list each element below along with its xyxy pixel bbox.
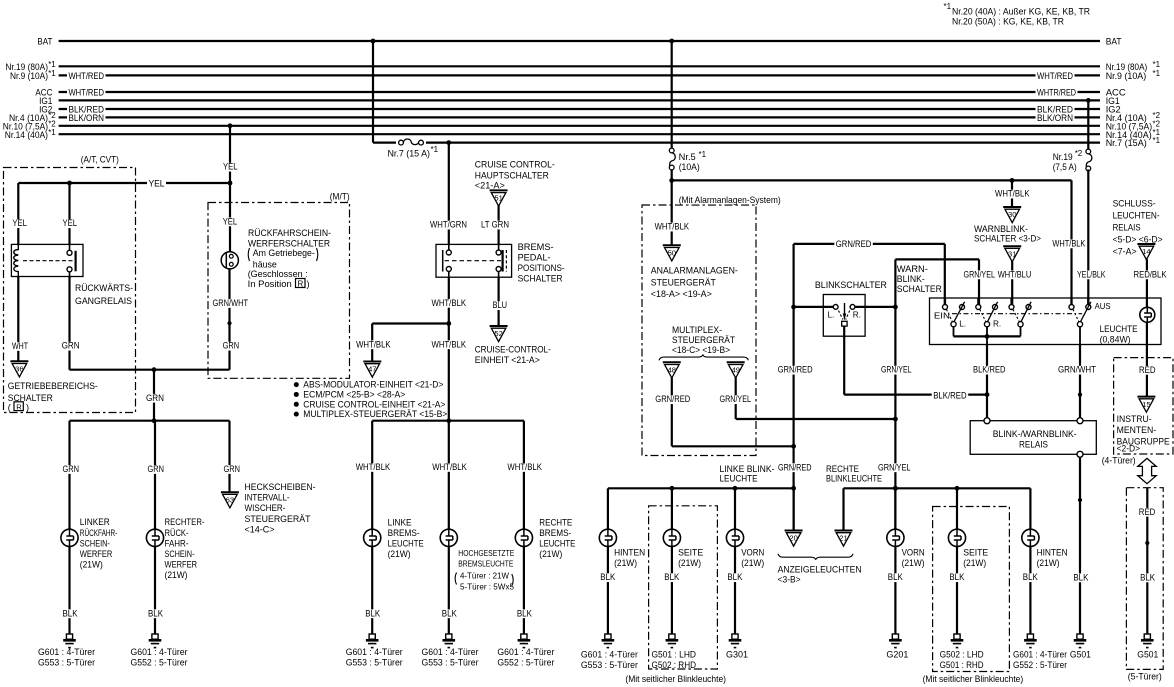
wire to left VORN blink lamp (734, 488, 736, 529)
svg-text:BLK: BLK (888, 572, 904, 582)
svg-text:*1: *1 (1153, 60, 1161, 69)
svg-text:BLK: BLK (664, 572, 680, 582)
wire RED/BLK to instrument cluster (1138, 322, 1158, 396)
ground G301 left VORN (726, 634, 748, 659)
svg-text:STEUERGERÄT: STEUERGERÄT (245, 514, 311, 524)
svg-text:WHT/BLK: WHT/BLK (356, 462, 391, 472)
wire LT GRN to brake pedal switch (480, 205, 511, 244)
wire GRN/RED turn signal feed (776, 239, 945, 530)
svg-text:(Geschlossen :: (Geschlossen : (248, 269, 308, 279)
label unit list ABS ECM CRUISE MULTIPLEX (294, 380, 448, 420)
lamp left SEITE 21W (663, 529, 703, 568)
svg-text:GRN: GRN (146, 393, 164, 403)
svg-text:*1: *1 (48, 128, 56, 137)
wire YEL/BLK from fuse Nr.19 (1076, 170, 1108, 305)
svg-text:CRUISE CONTROL-: CRUISE CONTROL- (475, 160, 555, 170)
svg-text:BLK/RED: BLK/RED (973, 365, 1006, 375)
svg-text:(21W): (21W) (388, 549, 411, 559)
wire BLK left backup lamp (61, 546, 79, 634)
svg-text:Nr.9 (10A): Nr.9 (10A) (1106, 71, 1147, 82)
lamp right VORN 21W (887, 529, 925, 568)
ground G601/G552 right backup lamp (131, 634, 188, 668)
svg-text:Nr.7 (15A): Nr.7 (15A) (1106, 138, 1147, 149)
svg-text:GRN: GRN (223, 341, 240, 351)
svg-text:Nr.19: Nr.19 (1053, 152, 1073, 162)
wire RED/BLK to leuchte (1132, 259, 1168, 307)
svg-text:G601 : 4-Türer: G601 : 4-Türer (581, 649, 638, 659)
svg-text:In Position: In Position (248, 279, 292, 289)
wire BLK/RED from blinkschalter common (844, 326, 989, 400)
svg-text:WARN-: WARN- (897, 264, 928, 274)
svg-text:49: 49 (731, 366, 739, 375)
bus wire BAT (37, 37, 1121, 48)
wire YEL tap from Nr.10 bus (222, 123, 240, 183)
svg-text:MULTIPLEX-STEUERGERÄT <15-B>: MULTIPLEX-STEUERGERÄT <15-B> (303, 409, 447, 419)
wire BLK left VORN (726, 546, 744, 634)
svg-text:GANGRELAIS: GANGRELAIS (75, 296, 132, 306)
bus wire IG2 (39, 104, 1121, 115)
svg-text:G601 : 4-Türer: G601 : 4-Türer (422, 647, 479, 657)
svg-text:SCHEIN-: SCHEIN- (165, 549, 195, 559)
svg-text:<18-C> <19-B>: <18-C> <19-B> (672, 345, 730, 355)
svg-text:G501 : LHD: G501 : LHD (652, 649, 697, 659)
svg-text:47: 47 (368, 365, 376, 374)
svg-text:L.: L. (959, 319, 966, 328)
svg-text:WARNBLINK-: WARNBLINK- (974, 224, 1028, 234)
svg-text:RELAIS: RELAIS (1019, 440, 1048, 450)
label MULTIPLEX-STEUERGERAET <18-C> <19-B> (659, 325, 748, 360)
svg-text:(A/T, CVT): (A/T, CVT) (81, 154, 119, 164)
svg-text:WHT/RED: WHT/RED (69, 87, 105, 97)
label INSTRUMENTEN-BAUGRUPPE <2-D> (1102, 414, 1170, 466)
svg-text:5-Türer : 5Wx5: 5-Türer : 5Wx5 (460, 581, 514, 591)
svg-text:SEITE: SEITE (963, 547, 988, 557)
lamp right HINTEN 21W (1022, 529, 1068, 568)
connector triangle 15 (1137, 397, 1155, 413)
svg-text:): ) (307, 279, 310, 289)
svg-text:RECHTE: RECHTE (539, 517, 572, 527)
svg-text:BLK: BLK (365, 608, 381, 618)
svg-text:FAHR-: FAHR- (165, 538, 189, 548)
svg-text:Nr.20 (50A) : KG, KE, KB, TR: Nr.20 (50A) : KG, KE, KB, TR (952, 17, 1064, 28)
svg-text:*1: *1 (48, 69, 56, 78)
svg-text:RED: RED (1139, 365, 1156, 375)
ground G501 instrument 5-Tuerer (1137, 634, 1158, 659)
svg-text:G552 : 5-Türer: G552 : 5-Türer (1013, 660, 1067, 670)
svg-text:R: R (298, 279, 304, 288)
svg-text:15: 15 (1142, 400, 1150, 409)
wire WHT/BLK branch to ABS units (355, 324, 449, 362)
svg-text:LINKE: LINKE (388, 517, 412, 527)
svg-text:RED/BLK: RED/BLK (1134, 269, 1168, 279)
svg-text:LEUCHTE: LEUCHTE (388, 539, 424, 549)
svg-text:HINTEN: HINTEN (1037, 547, 1068, 557)
svg-text:BLK/ORN: BLK/ORN (69, 113, 105, 123)
wire to left HINTEN blink lamp (607, 488, 609, 529)
wire YEL into reverse light switch (221, 183, 239, 252)
svg-text:BLK: BLK (442, 608, 458, 618)
ground G501 left SEITE (652, 634, 697, 670)
svg-text:SCHALTER: SCHALTER (897, 284, 942, 294)
label HECKSCHEIBEN-INTERVALL-WISCHER-STEUERGERAET <14-C> (245, 482, 316, 534)
label GETRIEBEBEREICHS-SCHALTER [R] (8, 381, 98, 413)
wire GRN to right backup lamp (146, 421, 166, 530)
svg-text:<2-D>: <2-D> (1117, 444, 1141, 454)
wire RED/BLK instrument 5-Tuerer (1137, 488, 1157, 634)
svg-text:WISCHER-: WISCHER- (245, 503, 286, 513)
ground G601 RECHTE BREMSLEUCHTE (497, 634, 554, 668)
svg-text:20: 20 (789, 534, 797, 543)
svg-text:G601 : 4-Türer: G601 : 4-Türer (38, 647, 95, 657)
svg-text:HOCHGESETZTE: HOCHGESETZTE (458, 548, 514, 558)
svg-text:LEUCHTE: LEUCHTE (1100, 324, 1138, 334)
svg-text:(10A): (10A) (679, 162, 700, 172)
svg-text:(0,84W): (0,84W) (1100, 334, 1131, 344)
dashed box (A/T, CVT) (4, 150, 136, 413)
connector triangle 31 (1003, 246, 1021, 262)
svg-text:51: 51 (494, 194, 502, 203)
svg-text:*1: *1 (1153, 136, 1161, 145)
svg-text:SCHALTER: SCHALTER (518, 274, 563, 284)
svg-text:BLINK-: BLINK- (897, 274, 925, 284)
svg-text:L.: L. (828, 311, 835, 320)
double arrow link 4-Tuerer/5-Tuerer (1138, 458, 1156, 483)
wire WHT/BLK to warnblink switch AUS (1051, 180, 1087, 304)
svg-text:YEL/BLK: YEL/BLK (1077, 269, 1106, 279)
ground G201 right VORN (886, 634, 908, 659)
svg-text:INTERVALL-: INTERVALL- (245, 493, 290, 503)
wire WHT/BLK to HOCHGESETZTE BREMSLEUCHTE (431, 421, 469, 530)
fuse Nr.19 (7,5A) (1053, 149, 1092, 172)
svg-text:BLU: BLU (493, 300, 508, 310)
svg-text:Nr.14 (40A): Nr.14 (40A) (5, 130, 48, 141)
label CRUISE-CONTROL-EINHEIT <21-A> (475, 344, 551, 365)
label CRUISE CONTROL-HAUPTSCHALTER <21-A> (475, 160, 555, 191)
switch BREMSPEDAL-POSITIONS-SCHALTER (436, 242, 565, 284)
svg-text:ANALARMANLAGEN-: ANALARMANLAGEN- (651, 266, 738, 276)
wire right turn lamp bus (826, 464, 1030, 491)
svg-text:VORN: VORN (741, 547, 764, 557)
svg-text:GRN/RED: GRN/RED (778, 462, 812, 472)
svg-text:*1: *1 (431, 145, 439, 154)
connector triangle 20 (785, 488, 803, 546)
svg-text:Nr.7 (15 A): Nr.7 (15 A) (388, 148, 431, 158)
svg-text:BLK/RED: BLK/RED (933, 390, 967, 400)
svg-text:BREMS-: BREMS- (539, 528, 571, 538)
wire YEL to relay contact (61, 183, 79, 244)
svg-text:BLK: BLK (63, 608, 79, 618)
svg-text:BLK: BLK (727, 572, 743, 582)
svg-text:WHT/BLK: WHT/BLK (432, 339, 467, 349)
svg-text:LEUCHTEN-: LEUCHTEN- (1113, 211, 1160, 221)
bus wire Nr.10 (7,5A) (3, 119, 1161, 132)
bus wire IG1 (39, 96, 1120, 107)
wire BLK from blink relais (1072, 457, 1090, 634)
wire BLK right backup lamp (147, 546, 165, 634)
relay RUECKWAERTS-GANGRELAIS (11, 244, 133, 306)
svg-text:G501: G501 (1070, 649, 1091, 659)
svg-text:BLK: BLK (1140, 572, 1156, 582)
wire BLK LINKE BREMSLEUCHTE (364, 546, 382, 634)
svg-text:G601 : 4-Türer: G601 : 4-Türer (497, 647, 554, 657)
wire GRN down to rear lamp bus (145, 370, 166, 421)
svg-text:CRUISE-CONTROL-: CRUISE-CONTROL- (475, 344, 551, 354)
dashed box instrument 5-Tuerer (1126, 488, 1163, 682)
svg-text:G201: G201 (886, 649, 908, 659)
wire rear lamp bus GRN (70, 418, 230, 423)
svg-text:GRN: GRN (224, 464, 241, 474)
ground G601/G553 left backup lamp (38, 634, 95, 668)
wire GRN to left backup lamp (61, 421, 81, 530)
svg-text:GRN/YEL: GRN/YEL (720, 394, 752, 404)
svg-text:(21W): (21W) (741, 558, 764, 568)
svg-text:<5-D> <6-D>: <5-D> <6-D> (1113, 234, 1163, 244)
wire to right VORN blink lamp (894, 488, 896, 529)
wire WHT/BLK to warnblink schalter connector (994, 180, 1032, 207)
svg-text:HECKSCHEIBEN-: HECKSCHEIBEN- (245, 482, 316, 492)
ground G601 left HINTEN (581, 634, 638, 670)
wire WHT/BLK to RECHTE BREMSLEUCHTE (506, 421, 544, 530)
svg-text:G553 : 5-Türer: G553 : 5-Türer (38, 658, 95, 668)
svg-text:BLK: BLK (600, 572, 616, 582)
wire IG1 feed to fuse Nr.19 (1086, 98, 1091, 149)
svg-text:<7-A>: <7-A> (1113, 246, 1137, 256)
fuse Nr.5 (10A) (669, 148, 706, 172)
svg-text:YEL: YEL (63, 218, 78, 228)
svg-text:31: 31 (1008, 249, 1016, 258)
label WARNBLINK-SCHALTER <3-D> (974, 224, 1041, 244)
svg-text:(4-Türer): (4-Türer) (1102, 456, 1136, 466)
svg-text:(21W): (21W) (963, 558, 986, 568)
svg-text:EIN: EIN (934, 310, 950, 320)
svg-text:G553 : 5-Türer: G553 : 5-Türer (422, 658, 479, 668)
svg-text:BREMS-: BREMS- (518, 242, 554, 252)
svg-text:RED: RED (1139, 507, 1156, 517)
ground G502 right SEITE (940, 634, 984, 670)
svg-text:WHT/BLK: WHT/BLK (1052, 238, 1086, 248)
svg-text:36: 36 (15, 365, 23, 374)
wire WHT/BLK from brake pedal switch (430, 277, 468, 421)
svg-text:WHT/BLK: WHT/BLK (655, 222, 690, 232)
svg-text:RELAIS: RELAIS (1113, 223, 1141, 233)
svg-text:RÜCKWÄRTS-: RÜCKWÄRTS- (75, 283, 133, 293)
wire BLK right SEITE (948, 546, 966, 634)
svg-text:(21W): (21W) (165, 570, 188, 580)
svg-text:R: R (16, 402, 22, 411)
svg-text:BLK: BLK (517, 608, 533, 618)
wire brake lamp bus WHT/BLK (372, 418, 524, 423)
svg-text:BLK: BLK (949, 572, 965, 582)
svg-text:SCHALTER <3-D>: SCHALTER <3-D> (974, 234, 1041, 244)
svg-text:30: 30 (1008, 210, 1016, 219)
svg-text:YEL: YEL (149, 178, 165, 188)
svg-text:SCHEIN-: SCHEIN- (80, 538, 110, 548)
svg-text:YEL: YEL (223, 162, 238, 172)
svg-text:BLINKSCHALTER: BLINKSCHALTER (815, 280, 887, 290)
svg-text:G501 : RHD: G501 : RHD (940, 660, 984, 670)
svg-text:(21W): (21W) (902, 558, 925, 568)
svg-text:YEL: YEL (223, 216, 238, 226)
wire GRN/YEL from blinkschalter R (877, 259, 997, 529)
svg-text:LINKE BLINK-: LINKE BLINK- (720, 464, 775, 474)
svg-text:ABS-MODULATOR-EINHEIT <21-D>: ABS-MODULATOR-EINHEIT <21-D> (303, 380, 443, 390)
label (Mit seitlicher Blinkleuchte) left (625, 674, 726, 684)
svg-text:WHT/BLK: WHT/BLK (432, 298, 467, 308)
svg-text:BLK: BLK (1023, 572, 1039, 582)
svg-text:BAT: BAT (37, 37, 52, 48)
svg-text:Nr.9 (10A): Nr.9 (10A) (10, 71, 48, 82)
svg-text:HAUPTSCHALTER: HAUPTSCHALTER (475, 171, 549, 181)
connector triangle 63 (221, 492, 239, 508)
svg-text:GETRIEBEBEREICHS-: GETRIEBEBEREICHS- (8, 381, 98, 391)
wire YEL to relay coil (11, 183, 29, 244)
svg-text:<18-A> <19-A>: <18-A> <19-A> (651, 289, 712, 299)
bus wire Nr.4 (10A) (9, 111, 1161, 124)
svg-text:GRN/YEL: GRN/YEL (878, 462, 911, 472)
switch WARN-BLINK-SCHALTER (897, 264, 1161, 345)
svg-text:52: 52 (494, 329, 502, 338)
wire WHT/BLU to warnblink switch (996, 261, 1032, 304)
svg-text:BLINKLEUCHTE: BLINKLEUCHTE (826, 473, 882, 483)
connector triangle 14 (1137, 244, 1155, 260)
svg-text:4-Türer : 21W: 4-Türer : 21W (460, 571, 510, 581)
svg-text:RÜCK-: RÜCK- (165, 528, 189, 538)
connector triangle 21 (835, 488, 853, 546)
wire GRN to wiper control unit (222, 421, 242, 493)
svg-text:LEUCHTE: LEUCHTE (539, 539, 575, 549)
wire GRN/RED from multiplex (654, 378, 794, 447)
connector triangle 49 (727, 362, 745, 378)
svg-text:(Mit seitlicher Blinkleuchte): (Mit seitlicher Blinkleuchte) (923, 674, 1024, 684)
svg-text:(21W): (21W) (80, 560, 103, 570)
connector triangle 52 (490, 326, 508, 342)
svg-text:WHTR/RED: WHTR/RED (1037, 87, 1076, 97)
svg-text:<21-A>: <21-A> (475, 181, 505, 191)
wire BAT feed to fuse Nr.7 (371, 39, 376, 143)
svg-text:(21W): (21W) (539, 549, 562, 559)
connector triangle 48 (663, 362, 681, 378)
svg-text:(Mit Alarmanlagen-System): (Mit Alarmanlagen-System) (679, 195, 781, 205)
wire BLK left HINTEN (599, 546, 617, 634)
svg-text:GRN: GRN (63, 464, 80, 474)
svg-text:MULTIPLEX-: MULTIPLEX- (672, 325, 722, 335)
svg-text:G502 : LHD: G502 : LHD (940, 649, 984, 659)
svg-text:WHT/BLK: WHT/BLK (995, 189, 1030, 199)
wire BLU from brake pedal switch (491, 277, 509, 326)
wire GRN from relay contact (60, 277, 229, 373)
svg-text:G502 : RHD: G502 : RHD (652, 660, 697, 670)
svg-text:BAT: BAT (1106, 37, 1122, 48)
svg-text:G601 : 4-Türer: G601 : 4-Türer (346, 647, 403, 657)
svg-text:GRN/YEL: GRN/YEL (881, 365, 912, 375)
dashed box (M/T) (208, 188, 354, 378)
wire WHT/BLK to LINKE BREMSLEUCHTE (354, 421, 392, 530)
svg-text:<3-B>: <3-B> (778, 574, 801, 584)
wire WHT from relay coil (11, 277, 30, 362)
wire BAT feed to fuse Nr.5 (669, 39, 674, 148)
svg-text:G553 : 5-Türer: G553 : 5-Türer (346, 658, 403, 668)
connector triangle 47 (363, 362, 381, 378)
svg-text:*2: *2 (1075, 149, 1083, 158)
label SCHLUSS-LEUCHTEN-RELAIS (1113, 199, 1163, 257)
brace ANZEIGELEUCHTEN (778, 554, 862, 585)
dashed box INSTRUMENTEN-BAUGRUPPE <2-D> (1114, 358, 1173, 454)
lamp right SEITE 21W (948, 529, 988, 568)
wire to left SEITE blink lamp (671, 488, 673, 529)
svg-text:GRN/RED: GRN/RED (655, 394, 690, 404)
wire WHT/GRN from fuse Nr.7 to brake pedal switch (429, 140, 469, 244)
svg-text:R.: R. (853, 311, 861, 320)
svg-text:GRN: GRN (62, 341, 80, 351)
ground G601 right HINTEN (1013, 634, 1067, 670)
label ANALARMANLAGEN-STEUERGERAET <18-A> <19-A> (651, 266, 738, 299)
svg-text:Am Getriebege-: Am Getriebege- (253, 248, 315, 258)
svg-text:RÜCKFAHRSCHEIN-: RÜCKFAHRSCHEIN- (248, 228, 331, 238)
svg-text:WHT/BLK: WHT/BLK (432, 462, 467, 472)
lamp LINKE BREMSLEUCHTE 21W (364, 517, 424, 559)
svg-text:SEITE: SEITE (678, 547, 703, 557)
svg-text:RÜCKFAHR-: RÜCKFAHR- (80, 528, 118, 538)
switch RUECKFAHRSCHEINWERFERSCHALTER (221, 228, 331, 289)
svg-text:(21W): (21W) (678, 558, 701, 568)
ground G601 LINKE BREMSLEUCHTE (346, 634, 403, 668)
connector triangle 50 (663, 245, 681, 261)
svg-text:häuse: häuse (253, 259, 277, 269)
svg-text:G552 : 5-Türer: G552 : 5-Türer (131, 658, 188, 668)
svg-text:LT GRN: LT GRN (481, 220, 509, 230)
wire GRN/WHT to blink relais (1057, 345, 1098, 418)
connector triangle 36 (10, 361, 28, 377)
svg-text:(5-Türer): (5-Türer) (1128, 671, 1162, 681)
svg-text:*1: *1 (699, 150, 707, 159)
svg-text:AUS: AUS (1095, 301, 1111, 311)
svg-text:50: 50 (668, 249, 676, 258)
relay BLINK-/WARNBLINK-RELAIS (970, 418, 1096, 458)
svg-text:): ) (26, 402, 29, 412)
wire BLK RECHTE BREMSLEUCHTE (515, 546, 533, 634)
connector triangle 51 (490, 190, 508, 206)
svg-text:RECHTE: RECHTE (826, 464, 859, 474)
svg-text:21: 21 (839, 534, 847, 543)
svg-text:CRUISE CONTROL-EINHEIT <21-A>: CRUISE CONTROL-EINHEIT <21-A> (303, 399, 445, 409)
svg-text:(M/T): (M/T) (330, 192, 350, 202)
svg-text:GRN/WHT: GRN/WHT (1058, 365, 1096, 375)
dashed box right SEITE (Mit seitlicher Blinkleuchte) (933, 507, 1010, 672)
svg-text:*1: *1 (1153, 69, 1161, 78)
bus wire ACC (35, 87, 1125, 98)
svg-text:ECM/PCM <25-B> <28-A>: ECM/PCM <25-B> <28-A> (303, 389, 405, 399)
svg-text:GRN: GRN (148, 464, 165, 474)
lamp left HINTEN 21W (599, 529, 645, 568)
svg-text:BLINK-/WARNBLINK-: BLINK-/WARNBLINK- (993, 429, 1077, 439)
svg-text:48: 48 (668, 366, 676, 375)
wire BLK right VORN (886, 546, 904, 634)
svg-text:BREMSLEUCHTE: BREMSLEUCHTE (458, 558, 513, 568)
svg-text:(21W): (21W) (1037, 558, 1060, 568)
svg-text:(Mit seitlicher Blinkleuchte): (Mit seitlicher Blinkleuchte) (625, 674, 726, 684)
svg-text:STEUERGERÄT: STEUERGERÄT (672, 335, 735, 345)
svg-text:G552 : 5-Türer: G552 : 5-Türer (497, 658, 554, 668)
switch BLINKSCHALTER (794, 280, 896, 336)
wire BLK HOCHGESETZTE BREMSLEUCHTE (440, 546, 458, 634)
svg-text:BLK: BLK (1073, 572, 1089, 582)
svg-text:RECHTER-: RECHTER- (165, 517, 205, 527)
svg-text:GRN/YEL: GRN/YEL (964, 269, 996, 279)
svg-text:*1: *1 (48, 60, 56, 69)
svg-text:BLK: BLK (148, 608, 164, 618)
svg-text:<14-C>: <14-C> (245, 524, 275, 534)
wire YEL horizontal distribution (18, 178, 232, 188)
